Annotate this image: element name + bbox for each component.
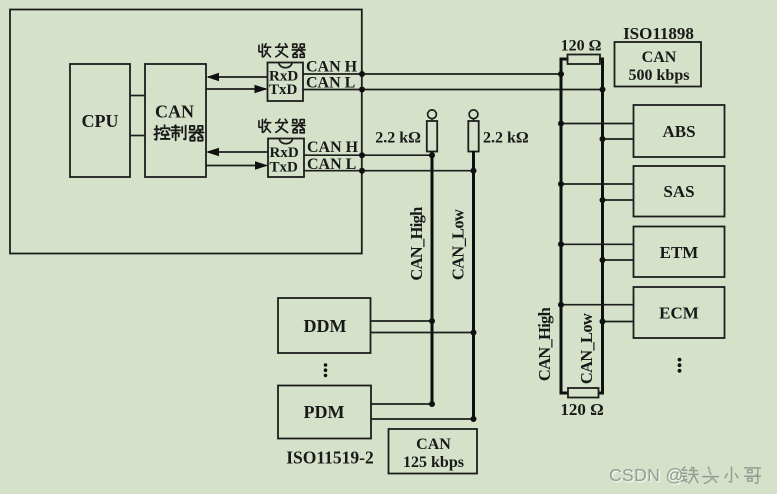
- svg-text:ISO11898: ISO11898: [623, 24, 694, 43]
- svg-text:120 Ω: 120 Ω: [560, 400, 603, 419]
- ECM box: [634, 287, 725, 338]
- svg-text:DDM: DDM: [304, 316, 347, 336]
- junction dot CANL1-bus: [600, 87, 606, 93]
- wire TxD2 with arrow to transceiver: [206, 161, 268, 169]
- label 收发器 transceiver1: [259, 44, 305, 58]
- svg-text:CAN_Low: CAN_Low: [449, 209, 468, 280]
- resistor R1 2.2k: [375, 110, 437, 152]
- svg-text:CAN_High: CAN_High: [407, 207, 426, 281]
- watermark 铁头小哥: [681, 467, 760, 484]
- svg-text:SAS: SAS: [663, 182, 694, 201]
- junction dot R2-CANL2: [471, 168, 477, 174]
- ETM box: [634, 227, 725, 278]
- DDM box: [278, 298, 371, 353]
- wire DDM-CAN_High: [371, 320, 433, 322]
- svg-text:CPU: CPU: [82, 111, 119, 131]
- svg-text:CAN H: CAN H: [307, 139, 359, 156]
- ellipsis between DDM and PDM: [324, 363, 328, 377]
- svg-text:CSDN @: CSDN @: [609, 465, 684, 485]
- wire CAN_High lowspeed bus: [407, 151, 432, 404]
- svg-text:CAN_High: CAN_High: [535, 307, 554, 381]
- wire ETM low: [603, 259, 634, 261]
- junction dot ETM high: [558, 241, 564, 247]
- svg-text:CAN: CAN: [416, 436, 451, 453]
- ECU outer box: [10, 10, 362, 254]
- wire ECM low: [603, 321, 634, 323]
- junction dot DDM low: [471, 330, 477, 336]
- label 收发器 transceiver2: [259, 119, 305, 133]
- junction dot ECM low: [600, 319, 606, 325]
- svg-text:ABS: ABS: [662, 122, 695, 141]
- svg-text:CAN: CAN: [642, 49, 677, 66]
- CAN controller box: [145, 64, 206, 177]
- ellipsis below ECM: [678, 358, 682, 373]
- wire PDM-CAN_Low: [371, 418, 474, 420]
- svg-text:CAN L: CAN L: [307, 156, 356, 173]
- junction dot SAS low: [600, 197, 606, 203]
- wire SAS low: [603, 199, 634, 201]
- label 控制器 (controller): [154, 125, 203, 140]
- wire SAS high: [561, 183, 634, 185]
- svg-text:2.2 kΩ: 2.2 kΩ: [483, 130, 529, 147]
- wire CAN H 2: [304, 139, 432, 156]
- wire PDM-CAN_High: [371, 403, 432, 405]
- wire CAN_Low highspeed bus: [577, 59, 603, 393]
- junction dot DDM high: [429, 318, 435, 324]
- transceiver U2 box: [268, 139, 304, 178]
- junction dot ETM low: [600, 257, 606, 263]
- wire CAN H 1: [303, 59, 561, 76]
- junction dot CANH1-bus: [558, 71, 564, 77]
- svg-text:TxD: TxD: [270, 160, 299, 176]
- svg-text:CAN_Low: CAN_Low: [577, 313, 596, 384]
- junction dot ABS high: [558, 121, 564, 127]
- wire CAN L 2: [304, 156, 474, 173]
- wire CAN_Low lowspeed bus: [449, 151, 474, 419]
- junction dot R1-CANH2: [429, 152, 435, 158]
- resistor 120ohm top: [560, 38, 605, 65]
- wire ABS low: [603, 138, 634, 140]
- junction dot ABS low: [600, 136, 606, 142]
- SAS box: [634, 166, 725, 217]
- wire DDM-CAN_Low: [371, 332, 474, 334]
- svg-text:120 Ω: 120 Ω: [561, 38, 602, 55]
- wire CPU-controller lower: [130, 135, 145, 137]
- wire ETM high: [561, 243, 634, 245]
- junction dots on ECU edge (bus1): [359, 71, 365, 77]
- resistor 120ohm bottom: [560, 388, 605, 419]
- svg-text:500 kbps: 500 kbps: [629, 67, 690, 84]
- CPU box: [70, 64, 130, 177]
- ABS box: [634, 105, 725, 157]
- node CAN 125 kbps box: [389, 429, 478, 474]
- junction dot PDM low: [471, 416, 477, 422]
- svg-text:CAN L: CAN L: [306, 75, 355, 92]
- wire CAN_High highspeed bus: [535, 59, 561, 393]
- svg-text:CAN H: CAN H: [306, 59, 358, 76]
- node CAN 500 kbps box: [615, 42, 702, 87]
- junction dot ECM high: [558, 302, 564, 308]
- svg-text:PDM: PDM: [304, 402, 345, 422]
- transceiver U1 box: [268, 63, 304, 102]
- wire RxD1 with arrow to controller: [207, 73, 268, 81]
- junction dots on ECU edge (bus2): [359, 152, 365, 158]
- svg-text:CAN: CAN: [155, 102, 194, 122]
- svg-text:ISO11519-2: ISO11519-2: [286, 448, 374, 468]
- wire CPU-controller upper: [130, 95, 145, 97]
- svg-text:TxD: TxD: [269, 82, 298, 98]
- wire TxD1 with arrow to transceiver: [206, 85, 268, 93]
- wire CAN L 1: [303, 75, 603, 92]
- PDM box: [278, 386, 371, 439]
- wire ABS high: [561, 123, 634, 125]
- junction dot SAS high: [558, 181, 564, 187]
- wire RxD2 with arrow to controller: [206, 148, 268, 156]
- svg-text:ECM: ECM: [659, 304, 699, 323]
- watermark CSDN: [609, 465, 685, 487]
- svg-text:ETM: ETM: [660, 243, 699, 262]
- svg-text:125 kbps: 125 kbps: [403, 454, 464, 471]
- resistor R2 2.2k: [468, 110, 529, 152]
- wire ECM high: [561, 304, 634, 306]
- junction dot PDM high: [429, 401, 435, 407]
- svg-text:2.2 kΩ: 2.2 kΩ: [375, 130, 421, 147]
